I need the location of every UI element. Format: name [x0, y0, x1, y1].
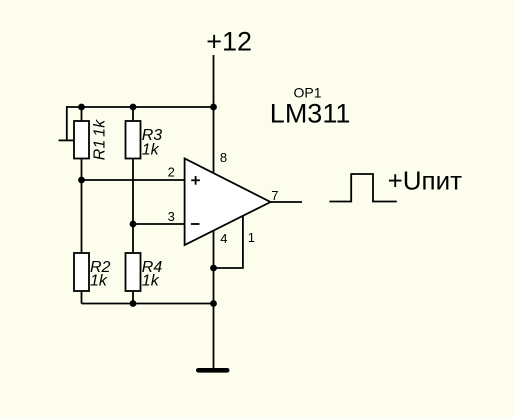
- wire: bottom rail: [82, 303, 214, 305]
- potentiometer R1 body: [74, 121, 89, 159]
- svg-text:1k: 1k: [90, 273, 108, 290]
- node: junction dot R3 top: [130, 104, 137, 111]
- wire: pin 7 output: [271, 201, 303, 203]
- svg-text:7: 7: [271, 188, 278, 203]
- wire: pin 1 lead down from triangle: [214, 216, 243, 269]
- node: junction dot divider A (pin2 row): [78, 177, 85, 184]
- wire: R1 wiper vertical: [66, 106, 68, 140]
- wire: R3 bottom lead down to R4: [132, 159, 134, 254]
- ground symbol: [198, 368, 227, 373]
- svg-text:1k: 1k: [142, 273, 160, 290]
- node: junction dot divider B (pin3 row): [130, 221, 137, 228]
- resistor R2 body: [74, 253, 89, 291]
- wire: ground lead: [213, 304, 215, 369]
- svg-text:1: 1: [248, 230, 255, 245]
- wire: pin 2 input wire: [82, 179, 185, 181]
- wire: pin 3 input wire: [133, 223, 185, 225]
- wire: R4 bottom lead: [132, 291, 134, 304]
- svg-text:2: 2: [168, 164, 175, 179]
- op-amp OP1 LM311 triangle: [185, 159, 271, 246]
- wire: R1 wiper horizontal: [59, 139, 75, 141]
- wire: R1 top lead: [81, 107, 83, 121]
- wire: top rail: [67, 106, 214, 108]
- output pulse waveform symbol: [329, 174, 396, 202]
- svg-text:3: 3: [168, 209, 175, 224]
- svg-text:+Uпит: +Uпит: [388, 165, 463, 195]
- wire: R1 bottom lead down to R2: [81, 159, 83, 254]
- node: junction dot ground branch: [210, 300, 217, 307]
- svg-text:+12: +12: [206, 27, 252, 57]
- wire: R3 top lead: [132, 107, 134, 121]
- resistor R4 body: [126, 253, 141, 291]
- resistor R3 body: [126, 121, 141, 159]
- svg-text:LM311: LM311: [270, 98, 351, 128]
- node: junction dot pin1/pin4: [210, 265, 217, 272]
- node: junction dot R1 top: [78, 104, 85, 111]
- wire: R2 bottom lead: [81, 291, 83, 304]
- svg-text:4: 4: [220, 231, 227, 246]
- svg-text:1k: 1k: [142, 142, 160, 159]
- wire: +12 supply lead: [213, 55, 215, 107]
- node: junction dot R4 bottom: [130, 300, 137, 307]
- op-amp minus input mark: [191, 223, 200, 225]
- node: junction dot supply: [210, 104, 217, 111]
- svg-text:8: 8: [220, 150, 227, 165]
- wire: pin 8 supply lead into triangle: [213, 107, 215, 174]
- wire: pin 4 lead down from triangle: [213, 230, 215, 304]
- svg-text:R1 1k: R1 1k: [92, 119, 109, 161]
- op-amp plus input mark: [191, 176, 200, 185]
